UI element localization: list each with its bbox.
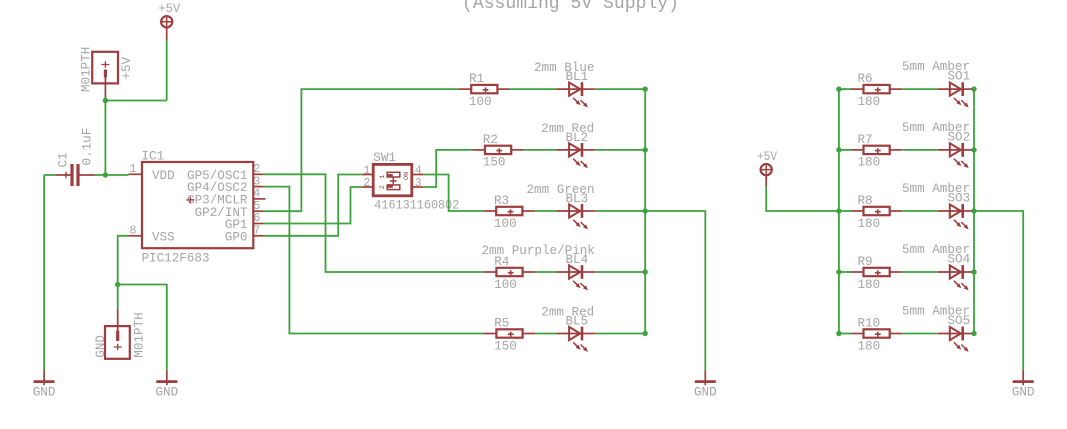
svg-text:100: 100 — [469, 95, 492, 109]
SW1 pin 4 — [411, 174, 423, 176]
node junction left bus R10 — [836, 331, 841, 336]
net bus to R7 — [839, 149, 851, 151]
node junction bus BL1 — [643, 86, 648, 91]
node junction VSS net — [115, 282, 120, 287]
svg-text:R1: R1 — [469, 72, 484, 86]
net VSS — [118, 236, 129, 310]
net LED cathode bus — [644, 89, 646, 333]
ground — [166, 371, 168, 386]
net bus to R10 — [839, 333, 851, 335]
IC1 origin cross — [186, 197, 194, 203]
SW1 pin 2 — [362, 186, 374, 188]
svg-text:1: 1 — [379, 175, 387, 179]
net right bus to GND — [974, 211, 1023, 371]
svg-text:7: 7 — [253, 225, 260, 238]
svg-text:150: 150 — [494, 339, 517, 353]
svg-text:1: 1 — [363, 164, 370, 177]
svg-text:5: 5 — [253, 200, 260, 213]
resistor R5 — [484, 333, 497, 335]
net R6 to SO1 — [902, 88, 937, 90]
svg-text:GND: GND — [155, 385, 178, 399]
resistor R7 — [851, 149, 864, 151]
net bus to R6 — [839, 88, 851, 90]
SW1 pin 3 — [411, 186, 423, 188]
wire +5V down — [166, 40, 168, 101]
svg-text:GP0: GP0 — [225, 230, 248, 244]
svg-text:VDD: VDD — [152, 169, 175, 183]
node junction at VDD net — [103, 172, 108, 177]
svg-text:GND: GND — [1012, 385, 1035, 399]
net right cathode bus — [973, 89, 975, 333]
node junction left bus R6 — [836, 86, 841, 91]
svg-text:+5V: +5V — [757, 150, 777, 164]
svg-text:416131160802: 416131160802 — [374, 198, 459, 212]
svg-text:SO4: SO4 — [948, 253, 971, 267]
LED SO3 — [937, 210, 963, 212]
svg-text:3: 3 — [253, 175, 260, 188]
wire C1 right to VDD pin — [95, 174, 129, 176]
SW1 channel 1 — [387, 172, 400, 177]
net SW1 pin3 to R2 — [423, 150, 472, 187]
svg-text:R6: R6 — [858, 72, 873, 86]
net SO3 to right bus — [974, 210, 976, 212]
svg-text:8: 8 — [130, 225, 137, 238]
svg-text:R10: R10 — [858, 317, 881, 331]
net R9 to SO4 — [902, 271, 937, 273]
LED arrows — [573, 220, 579, 226]
node junction right bus SO4 — [971, 269, 976, 274]
ground — [704, 371, 706, 386]
pin 7 GP0 — [253, 235, 263, 237]
net bus to GND — [645, 211, 705, 371]
svg-text:PIC12F683: PIC12F683 — [142, 251, 210, 265]
svg-text:(Assuming 5V Supply): (Assuming 5V Supply) — [462, 0, 679, 14]
net GP4/OSC2 to R5 — [263, 187, 484, 334]
LED BL4 — [557, 271, 583, 273]
svg-text:R3: R3 — [494, 194, 509, 208]
svg-text:4: 4 — [253, 188, 260, 201]
svg-text:SO1: SO1 — [948, 70, 971, 84]
resistor R1 — [459, 88, 472, 90]
connector JP1 M01PTH (top) — [92, 52, 118, 84]
node junction bus BL2 — [643, 147, 648, 152]
node junction bus BL4 — [643, 269, 648, 274]
SW1 channel 2 — [387, 185, 400, 190]
svg-text:+5V: +5V — [158, 2, 180, 16]
resistor R4 — [484, 271, 497, 273]
svg-text:150: 150 — [483, 156, 506, 170]
svg-text:SO5: SO5 — [948, 314, 971, 328]
svg-text:180: 180 — [858, 278, 881, 292]
pin 1 VDD — [129, 173, 143, 175]
svg-text:180: 180 — [858, 156, 881, 170]
svg-text:GND: GND — [694, 385, 717, 399]
node junction right bus SO1 — [971, 86, 976, 91]
svg-text:+5V: +5V — [120, 56, 134, 79]
svg-text:SO2: SO2 — [948, 130, 971, 144]
LED SO5 — [937, 333, 963, 335]
net R2 to BL2 — [524, 149, 557, 151]
ground — [43, 371, 45, 386]
wire C1 left to GND — [44, 174, 56, 176]
LED arrows — [954, 220, 960, 226]
net BL5 to bus — [595, 333, 645, 335]
net SO2 to right bus — [974, 149, 976, 151]
svg-text:2: 2 — [363, 177, 370, 190]
LED arrows — [573, 342, 579, 348]
pin 4 GP3/MCLR — [253, 198, 265, 200]
LED BL5 — [557, 333, 583, 335]
svg-text:180: 180 — [858, 217, 881, 231]
net R10 to SO5 — [902, 333, 937, 335]
svg-text:SO3: SO3 — [948, 192, 971, 206]
svg-text:GND: GND — [94, 335, 108, 358]
resistor R9 — [851, 271, 864, 273]
svg-text:100: 100 — [494, 278, 517, 292]
wire to M01PTH junction — [105, 100, 166, 102]
svg-text:R8: R8 — [858, 194, 873, 208]
net SO1 to right bus — [974, 88, 976, 90]
svg-text:R2: R2 — [483, 133, 498, 147]
pin 8 VSS — [129, 235, 143, 237]
net R4 to BL4 — [535, 271, 556, 273]
svg-text:VSS: VSS — [152, 230, 175, 244]
net SW1 pin4 to R3 — [423, 175, 483, 212]
net R8 to SO3 — [902, 210, 937, 212]
svg-text:0.1uF: 0.1uF — [81, 128, 95, 166]
node junction right bus SO2 — [971, 147, 976, 152]
svg-text:2: 2 — [253, 163, 260, 176]
net +5V right feed — [766, 186, 839, 211]
wire down to C1/VDD node — [104, 101, 106, 176]
svg-text:ON: ON — [403, 172, 411, 180]
resistor R3 — [484, 210, 497, 212]
net BL2 to bus — [595, 149, 645, 151]
node junction bus BL3 — [643, 208, 648, 213]
node junction left bus R9 — [836, 269, 841, 274]
node junction left bus R7 — [836, 147, 841, 152]
svg-text:M01PTH: M01PTH — [80, 47, 94, 92]
net GP1 to SW1 pin2 — [263, 187, 362, 224]
LED arrows — [573, 281, 579, 287]
net +5V left bus — [838, 89, 840, 333]
net GP5/OSC1 to R4 — [263, 174, 484, 272]
LED SO2 — [937, 149, 963, 151]
svg-text:C1: C1 — [57, 152, 71, 167]
svg-text:100: 100 — [494, 217, 517, 231]
LED BL1 — [557, 88, 583, 90]
svg-text:3: 3 — [415, 177, 422, 190]
resistor R2 — [473, 149, 486, 151]
pin 5 GP2/INT — [253, 210, 263, 212]
LED arrows — [573, 98, 579, 104]
svg-text:180: 180 — [858, 95, 881, 109]
net BL3 to bus — [595, 210, 645, 212]
net GP0 to SW1 pin1 — [263, 175, 362, 236]
svg-text:R9: R9 — [858, 255, 873, 269]
svg-text:R5: R5 — [494, 317, 509, 331]
node junction right bus SO5 — [971, 331, 976, 336]
svg-text:1: 1 — [130, 163, 137, 176]
LED arrows — [573, 159, 579, 165]
svg-text:2: 2 — [379, 185, 387, 189]
svg-text:6: 6 — [253, 212, 260, 225]
pin 2 GP5/OSC1 — [253, 173, 263, 175]
capacitor C1 — [56, 174, 71, 176]
net BL1 to bus — [595, 88, 645, 90]
svg-text:SW1: SW1 — [373, 151, 396, 165]
net SO4 to right bus — [974, 271, 976, 273]
svg-text:4: 4 — [415, 164, 422, 177]
net bus to R9 — [839, 271, 851, 273]
svg-text:180: 180 — [858, 339, 881, 353]
connector JP2 M01PTH (bottom) — [117, 310, 119, 332]
LED SO1 — [937, 88, 963, 90]
SW1 pin 1 — [362, 174, 374, 176]
ground — [1022, 371, 1024, 386]
node junction right bus SO3 — [971, 208, 976, 213]
net BL4 to bus — [595, 271, 645, 273]
op IC1 PIC12F683 box — [142, 162, 253, 248]
pin 6 GP1 — [253, 223, 263, 225]
node junction left bus R8 — [836, 208, 841, 213]
net GP2/INT to R1 — [263, 89, 459, 211]
net R3 to BL3 — [535, 210, 557, 212]
LED SO4 — [937, 271, 963, 273]
pin 3 GP4/OSC2 — [253, 186, 263, 188]
resistor R6 — [851, 88, 864, 90]
LED arrows — [954, 98, 960, 104]
svg-text:M01PTH: M01PTH — [133, 312, 147, 357]
net R1 to BL1 — [510, 88, 557, 90]
LED arrows — [954, 159, 960, 165]
LED BL2 — [557, 149, 583, 151]
svg-text:IC1: IC1 — [142, 149, 165, 163]
SW1 slider link — [392, 177, 394, 185]
resistor R10 — [851, 333, 864, 335]
svg-text:GND: GND — [33, 385, 56, 399]
LED arrows — [954, 342, 960, 348]
node junction bus BL5 — [643, 331, 648, 336]
LED arrows — [954, 281, 960, 287]
resistor R8 — [851, 210, 864, 212]
net R5 to BL5 — [535, 333, 556, 335]
switch SW1 box — [373, 164, 412, 195]
node junction at M01PTH pin — [103, 98, 108, 103]
net SO5 to right bus — [974, 333, 976, 335]
net bus to R8 — [839, 210, 851, 212]
net R7 to SO2 — [902, 149, 937, 151]
svg-text:R7: R7 — [858, 133, 873, 147]
LED BL3 — [557, 210, 583, 212]
net VSS to GND — [118, 285, 167, 371]
